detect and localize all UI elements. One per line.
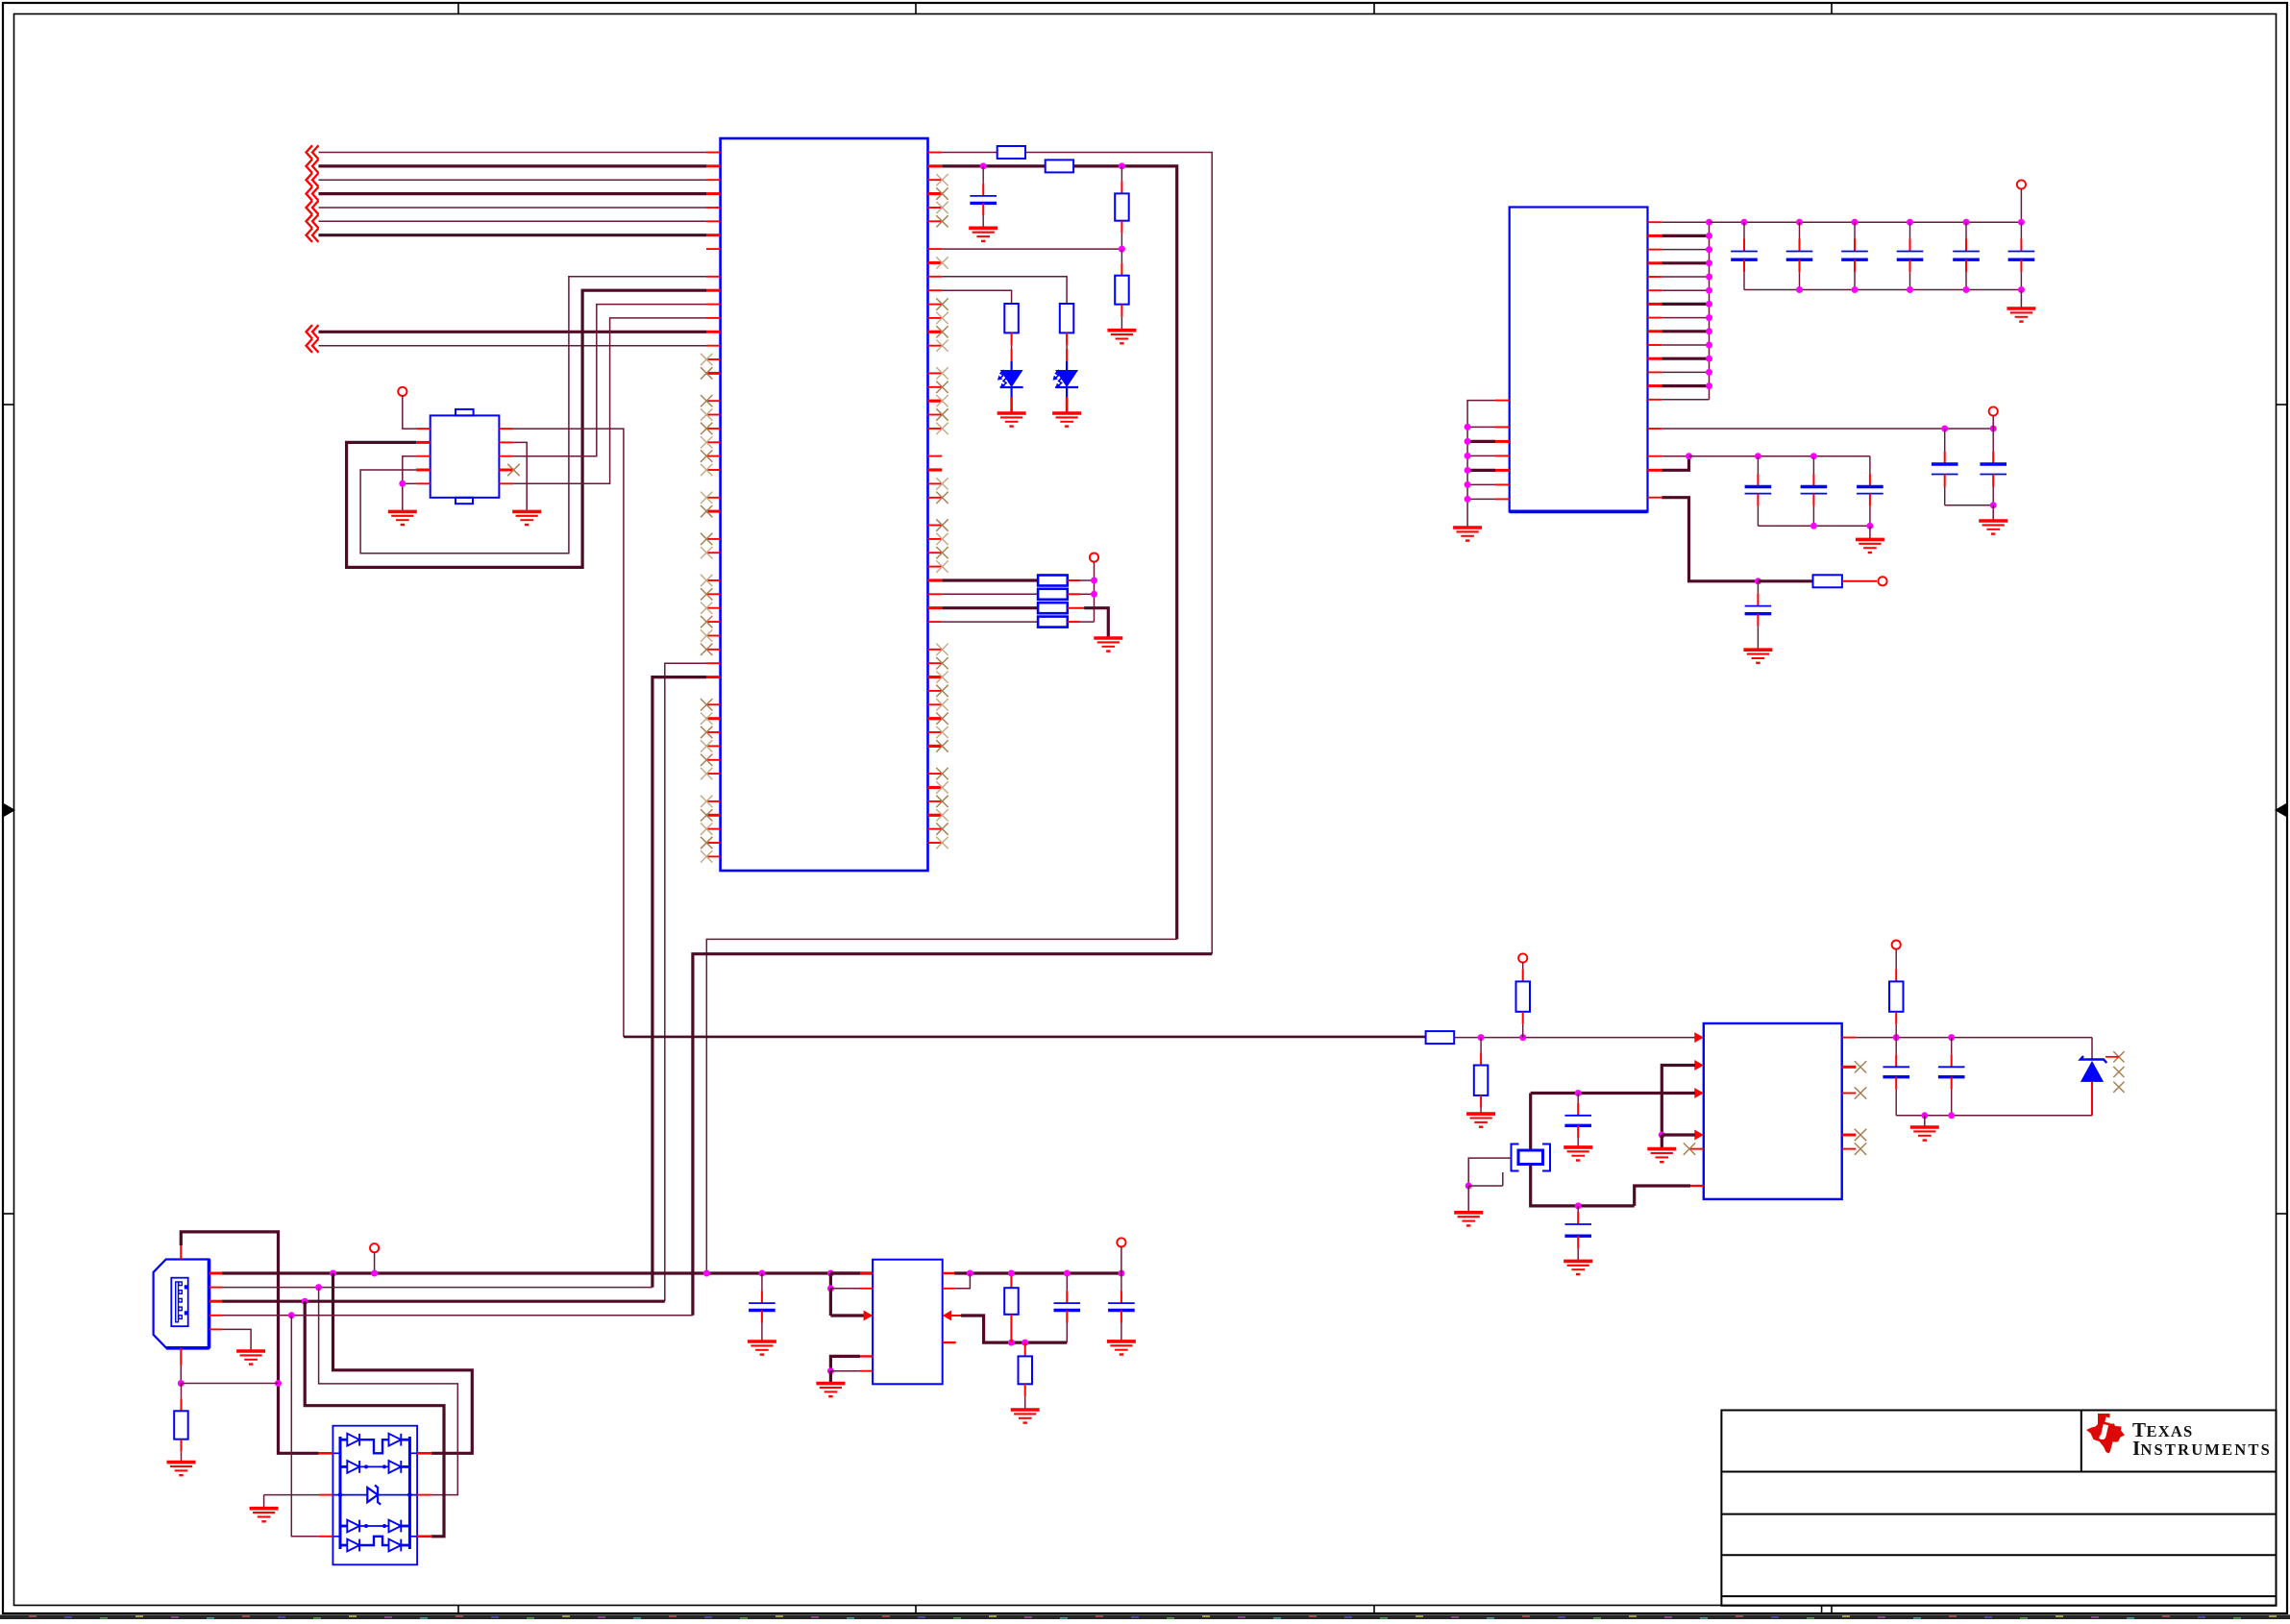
X1 right pins [499,428,513,430]
junction rail loopR1 [703,1270,710,1277]
wire RN vcc vertical [1094,562,1096,622]
junction rail Creg2 [1064,1270,1071,1277]
wire net n10 to X1 pin2 [347,290,706,567]
svg-text:TEXAS: TEXAS [2132,1418,2193,1441]
junction VBUS bridge [330,1270,336,1277]
wire reg L2 feed [829,1273,832,1289]
U5 pin L1 stub [860,1272,873,1275]
cap bank rail bottom [1744,289,2021,291]
junction rail cap [758,1270,765,1277]
junction reg R2 riser [967,1270,973,1277]
U4 pin L5 no connect [1690,1148,1704,1150]
junction J2 [1119,162,1125,169]
wire reg L3 arrow feed [829,1289,832,1316]
capacitor Creg3 [1120,1273,1122,1291]
off-page connector group 2 [307,325,319,338]
IC U4 body [1704,1023,1842,1199]
wire crystal bottom XTAL2 thick [1531,1165,1635,1206]
junction cap D [1941,426,1948,432]
wire X1 pin7 to ground right [513,442,527,511]
wire USB pin5 to ground [222,1329,251,1351]
capacitor CcrystalA [1577,1094,1579,1103]
IC U3 bottom edge thick [1510,510,1648,514]
junction port net [1755,578,1761,584]
resistor network RN3 [942,606,1038,609]
ground U4 right [1910,1127,1939,1141]
title block table [1721,1411,2276,1606]
U3 right pins group [1648,221,1662,223]
USB pins right [209,1272,222,1275]
resistor Rreg top [1010,1273,1012,1288]
capacitor CD [1944,429,1946,452]
diode array diode pairs [340,1439,347,1441]
resistor Rport [1813,575,1842,587]
wire R1 to right loop down [1025,153,1212,954]
wire row4 to bridge lower left [291,1316,318,1537]
junction gnd U4 right [1921,1112,1928,1119]
wire USB shield to bridge [181,1232,318,1453]
wire bridge mid-left to ground [264,1494,319,1496]
ground Creg3 [1107,1341,1136,1355]
wire VBUS to bridge right pin thick [333,1273,473,1453]
junction U4 capX [1893,1034,1900,1041]
wire loop R1 net down-left-down [706,939,1176,1273]
U3 left bus junctions [1465,424,1471,431]
ground bridge left [250,1509,279,1522]
wire rail right of reg thick [943,1272,954,1275]
ground CcrystalA [1564,1147,1592,1161]
capacitor Cport [1757,581,1759,594]
resistor R4 [1120,249,1122,263]
wire U4 pin L2 thick [1694,1060,1704,1070]
wire net n11 to X1 pin7 [513,305,706,456]
U1 left pins [706,152,721,154]
wire USB row4 pullup net [222,1315,693,1316]
resistor network RN1 [942,578,1038,581]
U3 left bus wires [1467,401,1495,528]
wire RU4in to U4 pin1 [1454,1037,1694,1039]
zener TVS diode [2091,1038,2093,1061]
capacitor Creg1 [761,1273,763,1291]
diode array pin rows internal [332,1452,340,1454]
ground X1 right [512,511,541,525]
wire X1 clock out net5 [513,429,624,1037]
wire RN3 to ground [1084,608,1108,638]
resistor RU4c [1889,981,1904,1011]
wire U1 n38 to USB D+ row thick [653,677,706,1288]
IC U1 body [721,138,928,871]
IC U3 body [1510,208,1648,512]
resistor Rreg2 bottom [1024,1342,1026,1356]
capacitor CE [1992,429,1994,452]
capacitors 3-cap group [1757,456,1759,475]
wire cap pair bottom rail [1945,504,1994,506]
wire n9 row to LED2 resistor [942,277,1067,304]
VCC port RN [1090,554,1098,562]
border zone ticks left [3,404,14,406]
VCC port U4 right [1892,941,1901,949]
wire crystal top lead [1529,1094,1532,1151]
resistor RUSB [181,1384,183,1399]
wire reg R2 [943,1288,954,1290]
ground Rreg2 [1011,1410,1040,1423]
wire crystal case stub [1468,1185,1503,1187]
cap bank junctions top [1741,219,1748,226]
U4 right bottom rail [1896,1115,2092,1117]
VCC port VBUS [370,1243,379,1252]
ground U4 L2/L4 [1661,1135,1663,1149]
junction crystal capA [1575,1090,1582,1096]
wire U3 row C to 3-cap rail [1662,455,1688,457]
VCC port cap bank [2017,180,2026,188]
resistor R3 [1120,166,1122,182]
reg R4 stub [943,1341,956,1343]
junction D- bridge [315,1284,322,1291]
wire D+ to bridge lower right thick [305,1301,444,1537]
wire n10 row to LED1 resistor [942,290,1011,304]
wire U4 pin L4 thick [1694,1130,1704,1141]
wire VBUS rail row1 thick [222,1271,873,1274]
wire U3 row E to port resistor thick [1662,498,1758,581]
junction rail VCC right [1118,1270,1124,1277]
border zone ticks right [2277,404,2288,406]
ground CcrystalB [1564,1261,1592,1274]
junction X1 gnd net [399,480,406,487]
wire U4 pin L3 crystal net thick [1694,1088,1704,1098]
wire crystal case left [1468,1158,1511,1186]
ground RUSB [167,1463,196,1476]
wire USB D+ row3 thick [222,1300,665,1303]
wire X1 pin1 to VCC [403,396,416,429]
port circle right [1842,580,1877,582]
ground cap pair [1979,521,2007,534]
border center arrow right [2275,803,2286,817]
junction U4in B [1519,1034,1526,1041]
U3 mid right pins [1648,428,1662,430]
diode array D1 body [332,1426,417,1565]
junction U4in A [1478,1034,1485,1041]
wire net n9 to X1 pin4 [360,277,706,554]
diode array internal buses [339,1437,342,1549]
bus wires group 2 to U1 [319,331,707,333]
wire net n12 to X1 pin6 [513,318,706,483]
junction row4 bridge [288,1312,295,1318]
ground C1 [969,228,997,241]
junction USB shield resistor [178,1380,185,1387]
capacitor CU4y [1951,1038,1953,1055]
USB bottom shield stub [180,1348,182,1366]
junction cap E / VCC [1990,426,1997,432]
junction rail reg [827,1270,834,1277]
wire D- to bridge mid right [319,1288,458,1495]
3-cap rail [1689,455,1870,457]
junction VBUS vcc [371,1270,378,1277]
capacitor CcrystalB [1577,1206,1579,1212]
U3 right pin wires to bus [1662,221,1709,223]
ground cap bank [2020,290,2022,309]
3cap bottom rail [1758,525,1870,527]
resistor RU4b pullup [1518,953,1527,962]
wire reg R3 arrow to divider [943,1311,952,1321]
no connect X marks zener [2113,1051,2124,1062]
wire n7 row to junction J3 [942,248,1121,250]
wire U1 n37 to USB D- row [665,663,706,1301]
diode array zener row [332,1494,367,1496]
USB connector J1 body [154,1260,209,1348]
capacitor bank C10-C15 [1743,222,1745,238]
wire n1 row thick to R2 [942,164,1045,167]
ground 3cap [1869,526,1871,539]
USB connector inner contacts [171,1278,187,1327]
border zone ticks bottom [457,1606,459,1614]
junction crystal case [1465,1183,1472,1190]
ground USB shell [236,1351,265,1365]
VCC port reg right [1117,1238,1125,1246]
wire R2 to right loop down thick [1073,166,1177,940]
wire U4 pin L6 [1635,1186,1690,1206]
svg-text:INSTRUMENTS: INSTRUMENTS [2132,1437,2272,1460]
ground RN3 [1094,638,1122,652]
U3 bus junctions [1706,233,1712,239]
ground X1 left [388,511,417,525]
junction U4 capY [1948,1034,1955,1041]
LED D1 [1011,332,1013,345]
junction J3 [1119,246,1125,253]
X1 left pins [416,428,431,430]
junction D+ bridge [302,1298,308,1305]
resistor network RN2 [942,593,1038,595]
junction divider B [1022,1340,1028,1346]
capacitor C1 [982,166,984,184]
U4 right pin R1 rail [1842,1037,1857,1039]
arrow U4 pin L1 [1694,1032,1704,1043]
border zone ticks top [457,3,459,14]
resistor R6 [1060,304,1074,332]
junction RN A [1091,578,1097,584]
wire n0 row to R1 [942,152,997,154]
off-page connector group 1 [307,145,319,159]
wire reg L4 L5 ground [860,1355,873,1357]
border center arrow left [4,803,15,817]
bottom border divider tick [1821,1606,1823,1614]
U3 left pins [1495,400,1510,402]
resistor network RN4 [942,621,1038,623]
diode array pins [319,1452,333,1455]
bottom footer noise strip [0,1614,2290,1619]
wire X1 pin3 pin8 to ground [403,456,416,512]
oscillator X1 body [431,415,500,497]
VCC port U3 right [1989,406,1998,415]
regulator U5 body [873,1260,943,1385]
junction J1 [980,162,987,169]
ground RU4a [1466,1114,1495,1127]
wire shield to bridge net [181,1383,278,1385]
LED D2 [1066,332,1068,345]
junction rail Rreg [1008,1270,1015,1277]
wire long U4 input net [624,1036,1426,1039]
resistor R1 [997,146,1025,159]
U3 vertical bus [1709,222,1711,400]
bus wires group 1 to U1 [319,152,707,154]
ground Creg1 [748,1341,776,1355]
X1 pin5 no-connect X [507,464,519,476]
U1 right pins [928,152,943,154]
wire loop R2 net down-left-down thick [693,954,1212,1316]
wire USB D- row2 [222,1287,653,1289]
ground crystal case [1467,1186,1469,1213]
junction U4 L4 gnd [1659,1132,1665,1139]
TI logo bug [2086,1414,2125,1454]
resistor R5 [1004,304,1019,332]
junctions 3cap top [1755,453,1761,459]
ground LED D2 [1052,413,1081,427]
U4 right nc pins [1842,1066,1857,1069]
USB top shield pin [180,1245,182,1260]
junction capB [1575,1202,1582,1209]
ground LED D1 [997,413,1026,427]
resistor RU4a pulldown [1480,1038,1482,1053]
capacitor CU4x [1895,1038,1897,1055]
ground U3 left bus [1453,528,1482,541]
junction RN B [1091,591,1097,598]
junction divider A [1008,1340,1015,1346]
cap bank junctions bottom [1796,286,1803,293]
ground R4 [1107,331,1136,344]
resistor RU4in [1426,1031,1455,1044]
capacitor Creg2 [1066,1273,1068,1291]
cap bank rail top [1710,221,2022,223]
junction 3cap rail start [1686,453,1692,459]
junction shield/pullup net [275,1380,282,1387]
ground reg left [816,1384,845,1397]
VCC port X1 [398,387,406,396]
resistor R2 [1046,160,1073,172]
crystal Y1 [1512,1144,1551,1171]
wire U3 VDD right to cap pair [1662,428,1993,430]
ground Cport [1743,650,1772,663]
wire U3 row D riser thick [1662,456,1688,471]
